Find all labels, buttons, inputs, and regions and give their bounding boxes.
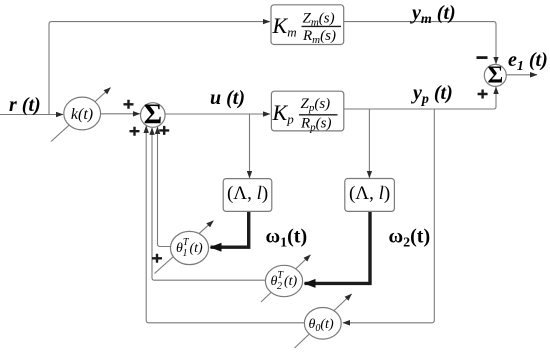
svg-text:θT1(t): θT1(t): [176, 237, 203, 259]
svg-text:(Λ, l): (Λ, l): [349, 183, 390, 204]
svg-text:ym (t): ym (t): [410, 2, 456, 27]
svg-text:Σ: Σ: [144, 99, 162, 130]
svg-text:θT2(t): θT2(t): [271, 270, 298, 292]
svg-text:ω2(t): ω2(t): [389, 226, 431, 251]
svg-text:k(t): k(t): [71, 106, 93, 123]
svg-text:r (t): r (t): [9, 94, 41, 116]
svg-text:e1 (t): e1 (t): [508, 49, 548, 74]
svg-text:u (t): u (t): [210, 87, 245, 109]
svg-text:Rp(s): Rp(s): [300, 116, 332, 134]
svg-text:yp (t): yp (t): [411, 82, 453, 107]
svg-text:θ0(t): θ0(t): [309, 317, 334, 334]
svg-text:Σ: Σ: [487, 62, 503, 88]
svg-text:ω1(t): ω1(t): [266, 226, 308, 251]
svg-text:Zp(s): Zp(s): [301, 96, 331, 114]
svg-text:(Λ, l): (Λ, l): [227, 183, 268, 204]
